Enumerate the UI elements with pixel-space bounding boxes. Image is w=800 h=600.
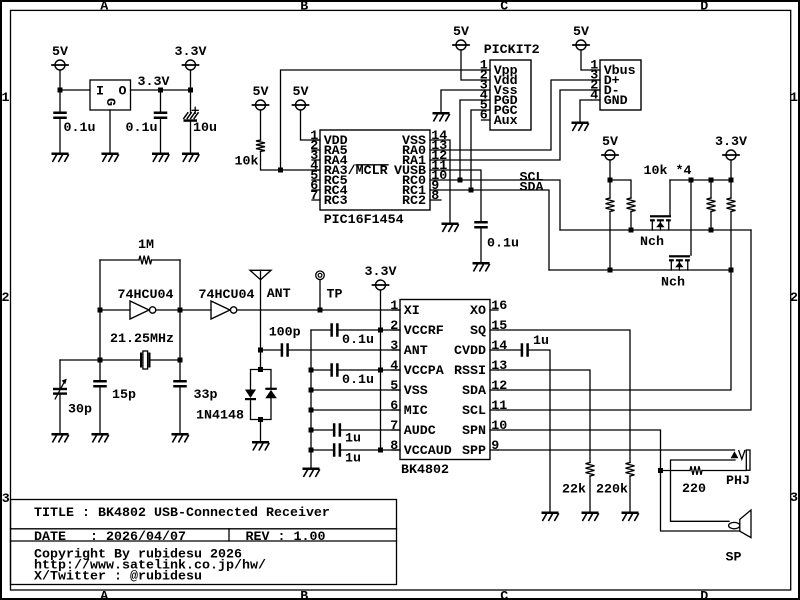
wire: [610, 180, 631, 198]
junction: [469, 188, 474, 193]
svg-text:G: G: [102, 98, 117, 106]
svg-text:22k: 22k: [562, 483, 586, 498]
svg-text:5V: 5V: [253, 85, 269, 100]
svg-text:PIC16F1454: PIC16F1454: [324, 213, 404, 228]
wire: [59, 119, 61, 153]
net label SCL: [520, 170, 544, 185]
svg-text:74HCU04: 74HCU04: [118, 288, 174, 303]
wire: [301, 110, 321, 140]
transistor Q Nch MOSFET (SDA level shift): [661, 255, 690, 290]
svg-text:ANT: ANT: [267, 287, 291, 302]
capacitor C 30p trimmer: [53, 379, 92, 418]
ground: [572, 122, 589, 131]
junction: [309, 408, 314, 413]
svg-text:21.25MHz: 21.25MHz: [110, 332, 174, 347]
wire: [260, 420, 262, 442]
wire: [310, 330, 312, 468]
wire: [609, 160, 611, 180]
wire: [730, 212, 732, 271]
svg-text:1u: 1u: [345, 452, 361, 467]
svg-text:6: 6: [390, 399, 398, 414]
wire: [438, 80, 600, 150]
svg-text:220: 220: [682, 482, 706, 497]
svg-text:1: 1: [390, 299, 398, 314]
diode D 1N4148 a: [245, 390, 256, 401]
junction: [158, 88, 163, 93]
svg-text:8: 8: [431, 189, 439, 204]
resistor R 10k (SDA 5V pullup): [606, 198, 615, 212]
antenna ANT: [250, 270, 291, 350]
wire: [260, 110, 262, 140]
ground: [433, 112, 450, 121]
svg-text:AUDC: AUDC: [404, 424, 436, 439]
svg-text:7: 7: [390, 419, 398, 434]
wire: [99, 360, 101, 380]
ground: [172, 433, 189, 442]
net label 3.3V: [138, 75, 170, 90]
svg-text:VCCRF: VCCRF: [404, 324, 444, 339]
capacitor C 0.1u (VCCRF): [330, 323, 374, 348]
ground: [52, 433, 69, 442]
svg-text:C: C: [500, 589, 508, 600]
wire: [438, 170, 481, 221]
svg-text:A: A: [100, 589, 108, 600]
junction: [608, 178, 613, 183]
wire: [461, 50, 482, 80]
wire: [498, 270, 731, 390]
junction: [178, 358, 183, 363]
svg-text:15p: 15p: [112, 388, 136, 403]
label 74HCU04: [199, 288, 255, 303]
wire: [289, 349, 400, 351]
svg-text:2: 2: [2, 291, 10, 306]
svg-text:5V: 5V: [293, 85, 309, 100]
junction: [98, 308, 103, 313]
svg-text:12: 12: [491, 379, 507, 394]
junction: [729, 268, 734, 273]
svg-text:VCCAUD: VCCAUD: [404, 444, 452, 459]
IC U BK4802: [390, 299, 507, 478]
svg-text:1: 1: [790, 91, 798, 106]
wire: [311, 329, 330, 331]
wire: [261, 398, 272, 419]
wire: [560, 229, 751, 231]
wire: [529, 350, 550, 512]
svg-text:PICKIT2: PICKIT2: [484, 43, 540, 58]
wire: [179, 388, 181, 434]
capacitor C 0.1u (VUSB): [474, 221, 519, 252]
wire: [311, 409, 400, 411]
junction: [309, 448, 314, 453]
wire: [549, 269, 731, 271]
wire: [581, 50, 592, 70]
wire: [311, 429, 333, 431]
svg-text:14: 14: [491, 339, 507, 354]
wire: [438, 90, 600, 160]
junction: [278, 168, 283, 173]
svg-text:B: B: [300, 589, 308, 600]
svg-text:10k: 10k: [235, 155, 259, 170]
ground: [102, 153, 119, 162]
wire: [670, 179, 731, 181]
wire: [260, 350, 262, 370]
svg-text:1M: 1M: [138, 238, 154, 253]
connector J PICKIT2: [480, 43, 540, 130]
svg-text:30p: 30p: [68, 403, 92, 418]
svg-text:16: 16: [491, 299, 507, 314]
svg-text:GND: GND: [604, 94, 628, 109]
wire: [190, 122, 192, 153]
resistor R 10k (MCLR pullup): [235, 140, 266, 170]
junction: [178, 308, 183, 313]
svg-text:13: 13: [491, 359, 507, 374]
svg-text:SP: SP: [726, 551, 742, 566]
wire: [190, 70, 192, 90]
svg-text:220k: 220k: [596, 483, 628, 498]
capacitor C 33p: [173, 380, 217, 403]
power symbol 5V (regulator input): [52, 45, 68, 70]
wire: [498, 330, 630, 463]
svg-text:1u: 1u: [345, 432, 361, 447]
junction: [309, 368, 314, 373]
svg-text:5V: 5V: [573, 25, 589, 40]
wire: [281, 70, 491, 170]
svg-text:SPN: SPN: [462, 424, 486, 439]
junction: [378, 448, 383, 453]
svg-text:REV : 1.00: REV : 1.00: [246, 530, 326, 545]
svg-text:5V: 5V: [602, 135, 618, 150]
svg-text:TP: TP: [327, 288, 343, 303]
wire: [151, 359, 181, 361]
wire: [498, 430, 740, 531]
junction: [709, 228, 714, 233]
power symbol 5V (PICKIT2 Vdd): [453, 25, 469, 50]
wire: [60, 359, 140, 361]
wire: [609, 212, 611, 271]
svg-text:XI: XI: [404, 304, 420, 319]
wire: [100, 259, 139, 261]
junction: [709, 178, 714, 183]
wire: [179, 360, 181, 380]
wire: [156, 309, 180, 311]
svg-text:5: 5: [390, 379, 398, 394]
wire: [380, 290, 382, 330]
junction: [629, 228, 634, 233]
crystal X 21.25MHz: [140, 351, 151, 369]
wire: [629, 476, 631, 512]
svg-text:A: A: [100, 0, 108, 15]
wire: [59, 70, 61, 112]
wire: [498, 370, 590, 463]
svg-text:BK4802: BK4802: [401, 463, 449, 478]
wire: [438, 140, 450, 223]
svg-text:0.1u: 0.1u: [342, 373, 374, 388]
junction: [258, 367, 263, 372]
wire: [109, 110, 111, 153]
junction: [58, 88, 63, 93]
wire: [580, 100, 592, 122]
ground: [52, 153, 69, 162]
ground: [252, 441, 269, 450]
test point TP: [316, 271, 343, 310]
capacitor C 1u (CVDD): [521, 334, 549, 357]
power symbol 5V (PIC VDD): [293, 85, 309, 110]
wire: [311, 369, 330, 371]
ground: [622, 512, 639, 521]
wire: [730, 180, 732, 198]
junction: [258, 417, 263, 422]
junction: [608, 268, 613, 273]
capacitor C 0.1u (5V input bypass): [53, 112, 95, 137]
svg-text:0.1u: 0.1u: [342, 333, 374, 348]
net label SDA: [520, 181, 544, 196]
junction: [729, 178, 734, 183]
svg-text:3: 3: [790, 491, 798, 506]
svg-text:2: 2: [390, 319, 398, 334]
svg-text:PHJ: PHJ: [726, 474, 750, 489]
svg-text:1u: 1u: [533, 334, 549, 349]
wire: [441, 90, 482, 112]
junction: [458, 178, 463, 183]
svg-text:3.3V: 3.3V: [138, 75, 170, 90]
power symbol 5V (MCLR pullup): [253, 85, 269, 110]
wire: [730, 160, 732, 180]
label 1M: [138, 238, 154, 253]
svg-text:Nch: Nch: [661, 276, 685, 291]
resistor R 10k (SCL 3.3V pullup): [707, 198, 716, 212]
wire: [380, 330, 382, 450]
resistor R 220 (phone jack): [682, 466, 706, 497]
svg-text:3.3V: 3.3V: [175, 45, 207, 60]
junction: [689, 178, 694, 183]
wire: [160, 90, 162, 112]
ground: [182, 153, 199, 162]
capacitor C 0.1u (VCCPA): [330, 363, 374, 388]
ground: [442, 223, 459, 232]
wire: [669, 180, 671, 215]
wire: [59, 395, 61, 433]
svg-text:B: B: [300, 0, 308, 15]
wire: [60, 89, 90, 91]
svg-text:8: 8: [390, 439, 398, 454]
svg-text:3: 3: [2, 492, 10, 507]
capacitor C 100p (antenna coupling): [269, 326, 301, 357]
wire: [589, 476, 591, 512]
wire: [339, 369, 400, 371]
svg-text:Aux: Aux: [494, 114, 518, 129]
title block: [11, 500, 397, 585]
svg-text:3.3V: 3.3V: [365, 265, 397, 280]
resistor R 22k (RSSI pulldown): [562, 463, 595, 498]
svg-text:DATE : 2026/04/07: DATE : 2026/04/07: [34, 530, 186, 545]
svg-text:SQ: SQ: [470, 324, 486, 339]
svg-text:X/Twitter : @rubidesu: X/Twitter : @rubidesu: [34, 570, 202, 585]
svg-text:5V: 5V: [52, 45, 68, 60]
resistor R 10k (SCL 5V pullup): [627, 198, 636, 212]
resistor R 10k (SDA 3.3V pullup): [727, 198, 736, 212]
wire: [190, 90, 192, 113]
wire: [311, 449, 333, 451]
capacitor C 1u (AUDC): [333, 423, 361, 446]
capacitor C 15p: [93, 380, 136, 403]
svg-text:10k *4: 10k *4: [644, 164, 692, 179]
svg-text:C: C: [500, 0, 508, 15]
power symbol 5V (I2C pullups): [602, 135, 618, 160]
resistor R 1M (feedback): [139, 256, 152, 265]
wire: [311, 389, 400, 391]
svg-text:Nch: Nch: [640, 235, 664, 250]
wire: [661, 470, 691, 472]
svg-text:4: 4: [590, 89, 598, 104]
wire: [261, 349, 281, 351]
svg-text:10: 10: [491, 419, 507, 434]
svg-text:XO: XO: [470, 304, 486, 319]
wire: [498, 349, 521, 351]
junction: [318, 308, 323, 313]
svg-text:RC3: RC3: [324, 194, 348, 209]
wire: [341, 429, 400, 431]
svg-text:0.1u: 0.1u: [487, 237, 519, 252]
wire: [261, 370, 272, 388]
wire: [99, 260, 101, 360]
regulator U 3.3V I/O/G: [90, 80, 131, 110]
IC U PIC16F1454: [310, 129, 447, 228]
label 21.25MHz: [110, 332, 174, 347]
inverter U 74HCU04 b: [211, 301, 237, 319]
svg-text:6: 6: [480, 109, 488, 124]
svg-text:RC2: RC2: [402, 194, 426, 209]
wire: [100, 309, 130, 311]
wire: [710, 180, 712, 198]
svg-text:2: 2: [790, 291, 798, 306]
wire: [671, 460, 736, 521]
wire: [152, 259, 181, 261]
svg-text:0.1u: 0.1u: [126, 121, 158, 136]
svg-text:0.1u: 0.1u: [64, 121, 96, 136]
svg-text:D: D: [700, 0, 708, 15]
label 10k *4: [644, 164, 692, 179]
svg-text:74HCU04: 74HCU04: [199, 288, 255, 303]
wire: [131, 89, 191, 91]
ground: [582, 512, 599, 521]
svg-text:SDA: SDA: [462, 384, 486, 399]
ground: [92, 433, 109, 442]
junction: [658, 468, 663, 473]
svg-text:9: 9: [491, 439, 499, 454]
svg-text:100p: 100p: [269, 326, 301, 341]
svg-text:5V: 5V: [453, 25, 469, 40]
svg-text:VCCPA: VCCPA: [404, 364, 444, 379]
wire: [251, 370, 261, 390]
svg-text:VSS: VSS: [404, 384, 428, 399]
ground: [542, 512, 559, 521]
wire: [160, 119, 162, 153]
speaker SP: [726, 510, 752, 566]
wire: [471, 110, 482, 190]
capacitor C 1u (VCCAUD): [333, 443, 361, 466]
junction: [378, 328, 383, 333]
ground: [152, 153, 169, 162]
svg-text:ANT: ANT: [404, 344, 428, 359]
svg-text:RSSI: RSSI: [454, 364, 486, 379]
wire: [690, 180, 692, 255]
wire: [251, 400, 261, 419]
inverter U 74HCU04 a: [130, 301, 156, 319]
connector J USB: [590, 59, 641, 110]
wire: [179, 260, 181, 360]
power symbol 5V (USB Vbus): [573, 25, 589, 50]
capacitor C 0.1u (3.3V bypass): [126, 112, 168, 137]
svg-text:3.3V: 3.3V: [715, 135, 747, 150]
wire: [630, 212, 632, 231]
diode D 1N4148 b: [196, 388, 277, 424]
wire: [710, 212, 712, 231]
power symbol 3.3V (I2C pullups): [715, 135, 747, 160]
label 74HCU04: [118, 288, 174, 303]
svg-text:33p: 33p: [194, 388, 218, 403]
wire: [180, 309, 211, 311]
svg-text:10u: 10u: [193, 121, 217, 136]
junction: [98, 358, 103, 363]
svg-text:SPP: SPP: [462, 444, 486, 459]
capacitor C 10u polarized: [184, 107, 218, 136]
junction: [188, 88, 193, 93]
svg-text:D: D: [700, 589, 708, 600]
power symbol 3.3V (BK4802): [365, 265, 397, 290]
wire: [498, 449, 735, 451]
svg-text:15: 15: [491, 319, 507, 334]
resistor R 220k (SQ pulldown): [596, 463, 635, 498]
svg-text:3: 3: [390, 339, 398, 354]
wire: [261, 152, 321, 171]
svg-text:O: O: [119, 85, 127, 100]
svg-text:MIC: MIC: [404, 404, 428, 419]
wire: [59, 360, 61, 388]
wire: [702, 470, 746, 472]
wire: [438, 180, 560, 230]
wire: [438, 190, 549, 270]
junction: [309, 388, 314, 393]
junction: [378, 368, 383, 373]
wire: [460, 100, 482, 180]
transistor Q Nch MOSFET (SCL level shift): [640, 215, 671, 250]
svg-text:SDA: SDA: [520, 181, 544, 196]
wire: [237, 309, 400, 311]
svg-text:1N4148: 1N4148: [196, 409, 244, 424]
wire: [99, 388, 101, 434]
svg-text:CVDD: CVDD: [454, 344, 486, 359]
junction: [309, 428, 314, 433]
ground: [473, 262, 490, 271]
wire: [339, 329, 400, 331]
svg-text:TITLE : BK4802 USB-Connected R: TITLE : BK4802 USB-Connected Receiver: [34, 506, 330, 521]
junction: [258, 348, 263, 353]
svg-text:4: 4: [390, 359, 398, 374]
wire: [609, 180, 611, 198]
power symbol 3.3V (regulator output): [175, 45, 207, 70]
wire: [480, 229, 482, 263]
connector J PHJ phone jack: [726, 450, 750, 489]
wire: [498, 230, 751, 410]
svg-text:11: 11: [491, 399, 507, 414]
wire: [341, 449, 400, 451]
svg-text:SCL: SCL: [462, 404, 486, 419]
svg-text:1: 1: [2, 91, 10, 106]
svg-text:7: 7: [310, 189, 318, 204]
ground: [303, 468, 320, 477]
